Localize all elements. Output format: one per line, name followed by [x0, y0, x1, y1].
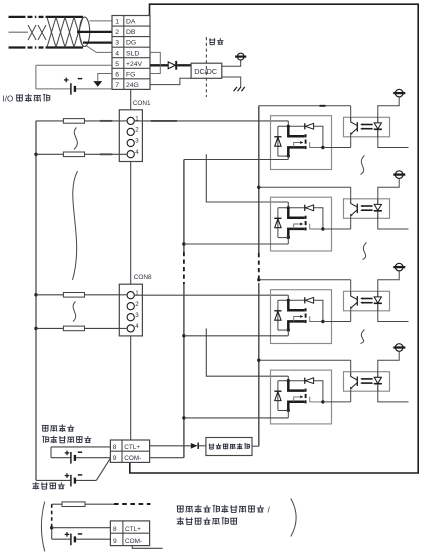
- svg-text:2: 2: [135, 127, 139, 134]
- svg-text:DB: DB: [126, 29, 136, 36]
- MOSFET Q4 gate with arrow: [294, 397, 301, 402]
- wire CH4 bottom input to COM bus: [184, 417, 288, 419]
- photocoupler PC2 phototransistor: [351, 199, 358, 207]
- module outline frame: [130, 4, 418, 473]
- svg-text:3: 3: [115, 40, 119, 47]
- wire CH1 diode to output node: [314, 126, 323, 147]
- I/O terminal CH4 (circle with bar): [395, 344, 403, 352]
- svg-text:5: 5: [115, 61, 119, 68]
- MOSFET Q3 source lead: [288, 321, 304, 330]
- wire terminal CH2 to LED anode: [378, 178, 399, 198]
- connector CON8: [119, 284, 142, 336]
- MOSFET Q2 drain electrode to output: [310, 224, 323, 229]
- wire con1p1 to CH1 input: [134, 120, 288, 122]
- MOSFET Q3 channel bars: [305, 308, 307, 311]
- wire bus to fuse F2 (CON1 pin4): [36, 153, 63, 155]
- wire CH2 output to photocoupler emitter: [323, 228, 351, 230]
- MOSFET Q1 channel bars: [305, 134, 307, 137]
- wire power loop bottom to pin7: [36, 88, 70, 90]
- photocoupler PC1 LED: [377, 117, 379, 123]
- internal supply bus vertical: [258, 106, 260, 253]
- MOSFET Q4 channel bars: [305, 389, 307, 392]
- wire break squiggle after CH2: [363, 243, 367, 260]
- node bus-F4: [34, 327, 37, 330]
- MOSFET Q1 gate with arrow: [294, 143, 301, 148]
- svg-text:+24V: +24V: [126, 61, 143, 68]
- svg-text:3: 3: [135, 312, 139, 319]
- photocoupler PC4 light arrows: [362, 378, 372, 380]
- photocoupler PC3 light arrows: [362, 298, 372, 300]
- node CH4 drain: [287, 379, 290, 382]
- svg-text:CTL+: CTL+: [125, 526, 141, 533]
- cable conductor DB (middle): [9, 31, 29, 33]
- photocoupler PC2 light arrows: [362, 205, 372, 207]
- node bus-F2: [34, 153, 37, 156]
- wire F3 to CON8 pin1: [85, 294, 128, 296]
- CON1 pin 4: [127, 151, 134, 158]
- FG terminal symbol (circle with bar): [237, 53, 244, 60]
- wire con8p1 to CH3 input: [134, 294, 288, 296]
- wire CH4 internal top: [278, 380, 305, 382]
- photocoupler PC4 phototransistor: [351, 372, 358, 380]
- node COM bus CH3: [182, 334, 185, 337]
- svg-text:6: 6: [115, 71, 119, 78]
- bracket wire SLD-FG tie: [150, 52, 160, 73]
- svg-text:8: 8: [113, 526, 117, 533]
- diode CH3 (flywheel, points left): [304, 297, 306, 303]
- svg-text:4: 4: [115, 50, 119, 57]
- node CH4 output: [321, 400, 324, 403]
- zener diode CH1: [277, 126, 279, 156]
- svg-text:1: 1: [135, 116, 139, 123]
- label output section line1: [42, 425, 49, 431]
- wire CH4 input jog: [287, 376, 289, 381]
- wire CH2 bottom input to COM bus: [184, 243, 288, 245]
- output FET block CH4: [271, 370, 332, 424]
- wire break squiggle between F3-F4: [73, 302, 76, 322]
- node supply bus branch CH2: [257, 186, 260, 189]
- photocoupler PC1 light arrows: [362, 124, 372, 126]
- wire diode to DC/DC (thick): [177, 64, 191, 66]
- CON8 pin 1: [127, 292, 134, 299]
- photocoupler PC4: [344, 372, 390, 392]
- fuse F5: [62, 502, 85, 507]
- wire CH1 bottom input to COM bus: [184, 159, 288, 161]
- CON8 pin 4: [127, 325, 134, 332]
- svg-text:COM-: COM-: [124, 455, 141, 462]
- wire tick on CH1 supply branch: [320, 105, 326, 107]
- wire supply branch CH1: [259, 105, 351, 107]
- svg-text:9: 9: [113, 538, 117, 545]
- wire terminal CH3 to LED anode: [378, 271, 399, 291]
- wire CH4 diode to output node: [314, 381, 323, 402]
- label output section external supply line2: [42, 436, 48, 443]
- node CH3 drain: [287, 299, 290, 302]
- DC/DC converter U1: [191, 63, 222, 78]
- MOSFET Q2 source lead: [288, 229, 304, 238]
- node CH1 drain: [287, 125, 290, 128]
- photocoupler PC2 LED: [377, 199, 379, 205]
- ground tap symbol on 24G wire: [93, 81, 102, 87]
- MOSFET Q2 gate with arrow: [294, 224, 301, 229]
- svg-text:8: 8: [113, 444, 117, 451]
- diode D1 on +24V line: [168, 62, 175, 69]
- wire 24G pin7 to DC/DC: [150, 78, 191, 84]
- I/O terminal CH3 (circle with bar): [395, 263, 403, 271]
- diode D2: [191, 443, 198, 449]
- MOSFET Q3 drain electrode to output: [310, 316, 323, 321]
- wire TB1 to CON1: [130, 89, 132, 109]
- wire CH1 input jog: [287, 121, 289, 126]
- wire CON8 to output terminal block: [130, 336, 132, 440]
- connector CON1: [119, 110, 142, 162]
- wire CH4 source rail: [278, 410, 288, 412]
- dashed drop to CTL+: [51, 504, 53, 526]
- wire CH2 input jog: [287, 202, 289, 208]
- svg-text:DC/DC: DC/DC: [194, 67, 217, 76]
- wire CH2 internal top: [278, 207, 305, 209]
- wire bus to fuse F3 (CON8 pin1): [36, 294, 63, 296]
- node CH1 output: [321, 146, 324, 149]
- output FET block CH3: [271, 290, 332, 344]
- output FET block CH1: [271, 116, 332, 170]
- wire PC1 LED cathode out: [378, 137, 409, 148]
- I/O terminal CH2 (circle with bar): [395, 171, 403, 179]
- CON8 pin 3: [127, 314, 134, 321]
- twisted pair crossover marks: [28, 25, 36, 40]
- node shared CTL+ junction: [51, 526, 53, 539]
- wire supply branch CH2: [259, 186, 351, 188]
- I/O terminal CH1 (circle with bar): [395, 89, 403, 97]
- cable conductor DA (top, dash-dot break): [9, 16, 26, 18]
- wire +24V pin5 to power loop: [36, 64, 112, 66]
- MOSFET Q1 drain lead: [288, 126, 304, 136]
- wire supply branch CH4: [259, 359, 351, 361]
- terminal block TB1 (pins 1-7): [112, 16, 150, 90]
- svg-text:4: 4: [135, 323, 139, 330]
- node supply bus branch CH4: [257, 359, 260, 362]
- svg-text:24G: 24G: [126, 82, 139, 89]
- wire dark segment on CON1 pin4 wire: [100, 153, 112, 155]
- svg-text:9: 9: [113, 455, 117, 462]
- photocoupler PC3 LED: [377, 291, 379, 297]
- wire supply branch CH3: [259, 279, 351, 281]
- photocoupler PC1: [344, 117, 390, 137]
- svg-text:DA: DA: [126, 19, 136, 26]
- node supply bus branch CH3: [257, 278, 260, 281]
- wire CON1 pin4 to CH2 input: [206, 154, 288, 202]
- photocoupler PC1 phototransistor: [351, 117, 358, 125]
- MOSFET Q1 drain electrode to output: [310, 142, 323, 147]
- wire CH1 source rail: [278, 155, 288, 157]
- node CH1 source: [287, 154, 290, 157]
- wire PC4 LED cathode out: [378, 391, 409, 402]
- wire break squiggle after CH3: [361, 330, 365, 344]
- dashed continuation of shared wire: [114, 503, 151, 505]
- svg-text:7: 7: [115, 82, 119, 89]
- fuse F2: [63, 152, 84, 157]
- wire F2 to CON1 pin4: [85, 153, 128, 155]
- svg-text:2: 2: [115, 29, 119, 36]
- label insulation: [209, 38, 215, 44]
- wire power loop left: [35, 65, 37, 89]
- zener diode CH3: [277, 300, 279, 330]
- external supply battery (output section): [51, 446, 110, 448]
- CON1 pin 3: [127, 139, 134, 146]
- wire battery minus to COM-: [76, 457, 111, 459]
- load power battery: [36, 479, 70, 481]
- output FET block CH2: [271, 197, 332, 251]
- MOSFET Q1 source lead: [288, 147, 304, 156]
- wire COM- to COM bus: [150, 457, 184, 459]
- MOSFET Q4 drain electrode to output: [310, 397, 323, 402]
- long wire break squiggle CON1-CON8: [73, 171, 78, 280]
- cable conductor DG (bottom, dash-dot break): [9, 46, 26, 48]
- zener diode CH4: [277, 381, 279, 411]
- CON8 pin 2: [127, 303, 134, 310]
- node CH2 drain: [287, 206, 290, 209]
- external load bus (left vertical): [35, 121, 37, 481]
- wire CTL+ to diode D2: [150, 445, 191, 447]
- wire CON1 to CON8: [130, 162, 132, 285]
- zener diode CH2: [277, 208, 279, 238]
- node CH4 source: [287, 409, 290, 412]
- wire CH3 bottom input to COM bus: [184, 335, 288, 337]
- svg-text:CON1: CON1: [133, 100, 151, 107]
- MOSFET Q2 channel bars: [305, 216, 307, 219]
- wire CH3 source rail: [278, 329, 288, 331]
- svg-text:SLD: SLD: [126, 50, 139, 57]
- wire CH4 output to photocoupler emitter: [323, 401, 351, 403]
- wire CH2 diode to output node: [314, 208, 323, 229]
- wire terminal CH1 to LED anode: [378, 97, 399, 117]
- note text line2: load power shared: [177, 517, 184, 525]
- photocoupler PC3 phototransistor: [351, 291, 358, 299]
- svg-text:1: 1: [115, 19, 119, 26]
- wire PC3 LED cathode out: [378, 311, 409, 322]
- wire DB to pin2 (thick): [77, 31, 112, 33]
- wire CON8 pin4 to CH4 input: [206, 328, 288, 376]
- svg-text:FG: FG: [126, 71, 135, 78]
- wire shield SLD to pin4: [86, 45, 113, 52]
- svg-text:CTL+: CTL+: [124, 444, 140, 451]
- diode CH1 (flywheel, points left): [304, 123, 306, 129]
- svg-text:2: 2: [135, 301, 139, 308]
- constant voltage circuit block: [206, 438, 252, 456]
- wire junction to CTL+ pin8: [52, 527, 111, 529]
- node CH2 source: [287, 236, 290, 239]
- wire terminal CH4 to LED anode: [378, 351, 399, 371]
- label load power: [32, 482, 39, 490]
- shared wire with fuse F5: [52, 503, 62, 505]
- COM- collector bus vertical: [183, 160, 185, 253]
- wire dark segment on CON1 pin1 wire: [100, 120, 112, 122]
- wire F4 to CON8 pin4: [85, 327, 128, 329]
- node bus-F3: [34, 293, 37, 296]
- output terminal block CTL+/COM-: [110, 440, 149, 462]
- MOSFET Q4 source lead: [288, 402, 304, 411]
- MOSFET Q3 gate with arrow: [294, 317, 301, 322]
- svg-text:CON8: CON8: [134, 274, 152, 281]
- wire below COM-: [132, 546, 162, 549]
- wire DA to pin1: [90, 20, 113, 22]
- svg-text:COM-: COM-: [125, 538, 142, 545]
- diode CH2 (flywheel, points left): [304, 205, 306, 211]
- wire CH1 output to photocoupler emitter: [323, 147, 351, 149]
- wire battery to COM- pin9: [76, 538, 111, 540]
- node CH2 output: [321, 227, 324, 230]
- note text line1: shared external supply: [177, 506, 184, 512]
- svg-text:4: 4: [135, 149, 139, 156]
- wire CH3 internal top: [278, 299, 305, 301]
- wire pin5 +24V to diode (thick): [150, 64, 168, 66]
- node CH3 output: [321, 320, 324, 323]
- photocoupler PC4 LED: [377, 372, 379, 378]
- svg-text:1: 1: [135, 290, 139, 297]
- CON1 pin 1: [127, 117, 134, 124]
- wire CH3 input jog: [287, 295, 289, 300]
- wire F1 to CON1 pin1: [85, 120, 128, 122]
- wire CH1 internal top: [278, 125, 305, 127]
- earth ground symbol: [234, 87, 237, 91]
- battery I/O module power: [70, 83, 72, 95]
- svg-text:DG: DG: [126, 40, 136, 47]
- left parenthesis of note: [41, 502, 44, 552]
- diode CH4 (flywheel, points left): [304, 378, 306, 384]
- fuse F3: [63, 293, 84, 298]
- MOSFET Q4 drain lead: [288, 381, 304, 391]
- wire load battery to COM- (diagonal): [76, 479, 96, 481]
- insulation boundary dashed line: [205, 37, 207, 97]
- shared battery: [52, 538, 70, 540]
- svg-text:3: 3: [135, 138, 139, 145]
- wire bus to fuse F4 (CON8 pin4): [36, 327, 63, 329]
- CON1 pin 2: [127, 128, 134, 135]
- wire CH3 diode to output node: [314, 300, 323, 321]
- wire D2 to constant voltage circuit: [199, 445, 206, 447]
- right parenthesis of note: [291, 499, 296, 537]
- node COM bus CH4: [182, 416, 185, 419]
- output terminal block (shared variant): [110, 521, 149, 546]
- wire CH2 source rail: [278, 237, 288, 239]
- wire PC2 LED cathode out: [378, 218, 409, 229]
- cable end ellipse: [80, 17, 90, 46]
- node COM bus CH2: [182, 242, 185, 245]
- wire supply bus to constant voltage circuit: [252, 445, 259, 447]
- wire FG pin6 to ground tap: [98, 74, 112, 81]
- fuse F1: [63, 119, 84, 124]
- MOSFET Q3 drain lead: [288, 300, 304, 310]
- photocoupler PC3: [344, 291, 390, 311]
- MOSFET Q2 drain lead: [288, 208, 304, 218]
- cable shield braid: [47, 17, 56, 47]
- node CH3 source: [287, 328, 290, 331]
- svg-text:I/O: I/O: [3, 95, 14, 104]
- photocoupler PC2: [344, 199, 390, 219]
- wire CH3 output to photocoupler emitter: [323, 321, 351, 323]
- wire break squiggle between F1-F2: [74, 128, 77, 150]
- wire DC/DC to FG terminal: [222, 60, 241, 66]
- wire DG to pin3 (thick): [83, 41, 112, 43]
- wire bus to fuse F1 (CON1 pin1): [36, 120, 63, 122]
- wire DC/DC to earth ground: [222, 77, 241, 87]
- wire break squiggle after CH1: [361, 156, 365, 175]
- fuse F4: [63, 326, 84, 331]
